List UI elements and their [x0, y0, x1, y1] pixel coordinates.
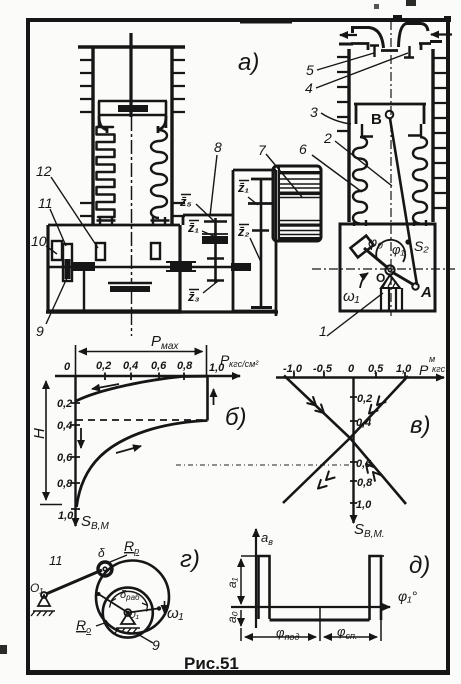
- lever O1 to roller: [46, 570, 102, 594]
- svg-text:а): а): [238, 49, 259, 76]
- h axis: [55, 375, 240, 377]
- x ticks: [294, 372, 405, 378]
- svg-text:z̄₁: z̄₁: [237, 180, 249, 195]
- svg-text:8: 8: [214, 139, 222, 155]
- housing bottom thick: [46, 310, 182, 313]
- svg-text:0,6: 0,6: [57, 452, 73, 464]
- box 10: [52, 241, 62, 260]
- svg-text:А: А: [420, 284, 432, 301]
- bellows right: [413, 137, 427, 223]
- intake left passage: [353, 28, 384, 49]
- intake right arrow: [431, 33, 452, 35]
- svg-text:φ₁: φ₁: [392, 242, 405, 257]
- svg-text:О: О: [376, 271, 385, 285]
- piston plate: [98, 101, 167, 128]
- svg-text:7: 7: [258, 142, 267, 158]
- svg-text:3: 3: [310, 104, 318, 120]
- intake left arrow: [340, 34, 357, 36]
- svg-text:кгс/см²: кгс/см²: [229, 359, 259, 369]
- svg-text:10: 10: [31, 233, 47, 249]
- right wall cap: [430, 40, 442, 43]
- head plate feet: [361, 124, 421, 137]
- extra chevrons on X lines: [307, 396, 385, 488]
- svg-text:φ₀: φ₀: [368, 234, 383, 250]
- cam base circle Ro: [103, 588, 153, 638]
- svg-text:1,0: 1,0: [396, 363, 412, 375]
- piston rod: [129, 33, 132, 117]
- roller: [98, 562, 112, 576]
- diagonal A: [284, 376, 406, 505]
- svg-text:д): д): [409, 552, 430, 579]
- svg-text:Rр: Rр: [124, 538, 139, 556]
- svg-text:S₂: S₂: [414, 238, 429, 254]
- omega1 rotation arrow: [360, 273, 368, 288]
- crank center circles: [385, 265, 394, 274]
- pivot O1: [41, 592, 47, 598]
- drum body: [273, 166, 321, 241]
- bottom dim: [245, 636, 316, 638]
- rod lower continuation: [131, 292, 133, 336]
- Pmax dim line: [79, 351, 203, 353]
- svg-text:м: м: [429, 354, 435, 364]
- svg-text:Рис.51: Рис.51: [184, 654, 239, 673]
- svg-text:О₁: О₁: [128, 610, 139, 621]
- svg-text:δ: δ: [98, 546, 105, 560]
- svg-text:9: 9: [152, 637, 160, 653]
- svg-text:1,0: 1,0: [356, 499, 372, 511]
- head plate: [354, 104, 426, 124]
- phi1 arc: [376, 240, 405, 262]
- svg-text:φсп.: φсп.: [337, 624, 357, 641]
- H dim line: [45, 381, 47, 500]
- svg-text:ав: ав: [261, 530, 273, 547]
- svg-text:0,6: 0,6: [356, 458, 372, 470]
- cylinder right wall: [170, 47, 173, 224]
- counterweight arm: [364, 248, 388, 268]
- left wall cap: [339, 43, 353, 46]
- svg-text:Н: Н: [31, 428, 48, 439]
- svg-text:0,8: 0,8: [357, 477, 373, 489]
- piston hub dark block: [118, 105, 148, 112]
- right gearbox: [233, 170, 276, 316]
- delta rab arc: [111, 591, 148, 605]
- gear z1 dark block: [202, 236, 228, 244]
- left wall ticks: [337, 57, 349, 131]
- cam center pivot: [124, 609, 131, 616]
- svg-text:а₀: а₀: [225, 611, 239, 623]
- x ticks: [105, 373, 184, 381]
- svg-text:б): б): [225, 404, 247, 431]
- support pedestal: [83, 271, 85, 311]
- crank box: [340, 224, 435, 311]
- piston step left: [99, 116, 107, 133]
- svg-text:В: В: [371, 111, 382, 128]
- arrow upper curve: [92, 384, 119, 389]
- svg-text:0,4: 0,4: [57, 420, 72, 432]
- y axis: [255, 529, 257, 628]
- coupling mid: [166, 262, 196, 271]
- crank pin A: [412, 283, 418, 289]
- svg-text:5: 5: [306, 62, 314, 78]
- v axis: [74, 376, 76, 526]
- svg-text:11: 11: [38, 195, 53, 211]
- stray scan marks: [0, 645, 7, 654]
- right wall ticks: [433, 58, 447, 208]
- left gearbox: [183, 215, 233, 311]
- z label overlines: [181, 181, 249, 290]
- cylinder top cap: [78, 45, 185, 48]
- cylinder left wall: [91, 47, 94, 224]
- connecting rod B to A: [390, 119, 417, 286]
- svg-text:11: 11: [49, 553, 63, 568]
- svg-text:Rо: Rо: [76, 617, 91, 635]
- pedestal stand: [381, 288, 402, 310]
- valve right stem: [404, 46, 414, 58]
- faint dash-dot mid line: [176, 464, 351, 466]
- svg-text:SВ,М: SВ,М: [81, 513, 109, 532]
- radius line up-left: [99, 594, 128, 613]
- svg-text:0,4: 0,4: [123, 360, 138, 372]
- omega arrow: [164, 601, 166, 613]
- y ticks: [71, 403, 80, 509]
- frame bottom reinforcement: [26, 670, 450, 675]
- svg-text:ω₁: ω₁: [167, 605, 184, 622]
- svg-text:z̄₂: z̄₂: [237, 224, 250, 239]
- svg-text:в): в): [410, 412, 431, 439]
- svg-text:9: 9: [36, 323, 44, 339]
- svg-text:6: 6: [299, 141, 307, 157]
- right vertical of loop: [206, 376, 209, 421]
- svg-text:О₁: О₁: [30, 581, 43, 595]
- right wall: [431, 49, 434, 222]
- left dim line: [240, 559, 242, 604]
- box right small: [151, 243, 160, 259]
- y ticks: [350, 397, 357, 503]
- diagonal B: [283, 376, 408, 503]
- svg-text:0,8: 0,8: [57, 478, 73, 490]
- S2 dot: [405, 239, 410, 244]
- intake right passage: [399, 24, 429, 48]
- svg-text:г): г): [180, 546, 200, 573]
- valve left stem T: [370, 46, 379, 58]
- center seat: [381, 49, 398, 52]
- svg-text:SВ,М.: SВ,М.: [354, 521, 385, 540]
- lower curve: [77, 421, 208, 508]
- right pulse: [370, 556, 382, 620]
- svg-text:а₁: а₁: [225, 577, 239, 588]
- svg-text:ω₁: ω₁: [343, 288, 360, 305]
- box 11 tall: [63, 244, 72, 281]
- coupling right of left box: [231, 263, 251, 271]
- left pulse: [259, 556, 270, 619]
- housing bottom under boxes: [182, 310, 278, 313]
- rod base block: [108, 282, 152, 285]
- svg-text:1,0: 1,0: [58, 510, 74, 522]
- svg-text:0,2: 0,2: [57, 398, 72, 410]
- crank arm to A: [392, 272, 414, 285]
- bellows left: [353, 137, 367, 223]
- svg-text:0,2: 0,2: [357, 393, 372, 405]
- arrow left down: [80, 428, 82, 448]
- radius line to omega dot: [128, 609, 158, 613]
- big profile circle Rp: [96, 561, 169, 634]
- center dash-dot line: [390, 21, 392, 316]
- main shaft: [48, 266, 232, 268]
- upper curve: [76, 376, 208, 401]
- left wall: [347, 49, 350, 222]
- counterweight: [350, 236, 373, 258]
- dashed line: [76, 419, 205, 421]
- top border dark blobs: [393, 15, 402, 22]
- bellows right: [151, 130, 167, 218]
- svg-text:4: 4: [305, 80, 313, 96]
- svg-text:-1,0: -1,0: [283, 363, 303, 375]
- svg-text:2: 2: [323, 130, 332, 146]
- gear shaft z4/z2: [260, 178, 263, 306]
- x axis: [231, 606, 390, 608]
- omega dot: [157, 606, 161, 610]
- bellows feet: [97, 217, 170, 224]
- valve right seat: [419, 44, 431, 51]
- svg-text:0,6: 0,6: [151, 360, 167, 372]
- svg-text:Р: Р: [419, 362, 429, 378]
- gear shaft z5/z1/z3: [214, 218, 217, 283]
- dash-dot horizontal: [312, 268, 455, 270]
- svg-text:z̄₅: z̄₅: [179, 194, 192, 209]
- svg-text:Рмах: Рмах: [151, 333, 179, 352]
- svg-text:12: 12: [36, 163, 52, 179]
- coupling left dark: [73, 262, 95, 271]
- svg-text:0,4: 0,4: [356, 417, 371, 429]
- wall hatch ticks left: [80, 60, 93, 216]
- B circle: [386, 111, 394, 119]
- valve left seat: [351, 44, 368, 51]
- svg-text:0,8: 0,8: [177, 360, 193, 372]
- svg-text:z̄₃: z̄₃: [187, 289, 200, 304]
- h axis: [276, 376, 444, 378]
- svg-text:0: 0: [348, 363, 355, 375]
- bellows left (square meander): [97, 127, 115, 217]
- svg-text:1: 1: [319, 323, 327, 339]
- svg-text:кгс: кгс: [432, 364, 446, 374]
- box 12: [96, 243, 105, 260]
- wall hatch ticks right: [172, 60, 185, 216]
- arrow lower curve: [116, 446, 141, 453]
- svg-text:φпод: φпод: [276, 625, 299, 642]
- svg-text:z̄₁: z̄₁: [187, 220, 199, 235]
- bellows feet bottom: [354, 220, 426, 226]
- svg-text:φ₁°: φ₁°: [398, 588, 418, 604]
- housing outline: [48, 225, 180, 311]
- piston step right: [158, 116, 166, 133]
- pedestal triangle: [381, 275, 400, 288]
- svg-text:0,2: 0,2: [96, 360, 111, 372]
- svg-text:0,5: 0,5: [368, 363, 384, 375]
- v axis: [352, 378, 354, 524]
- svg-text:-0,5: -0,5: [313, 363, 333, 375]
- svg-text:0: 0: [64, 361, 71, 373]
- arrow right up: [213, 389, 215, 405]
- low shelf: [270, 619, 370, 622]
